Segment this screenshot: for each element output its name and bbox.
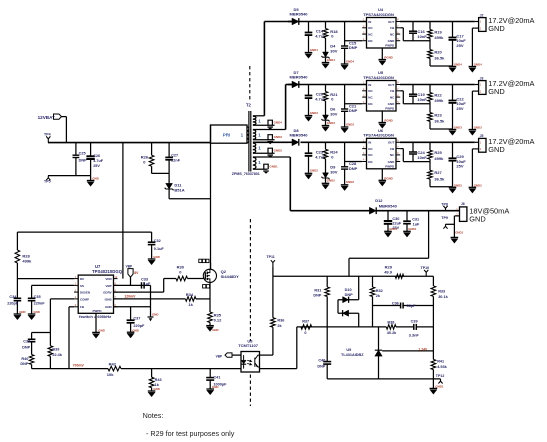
capacitor C41 1000pF bbox=[209, 369, 211, 378]
svg-text:499k: 499k bbox=[434, 156, 444, 161]
ground GND3 bbox=[341, 126, 349, 128]
svg-text:C27: C27 bbox=[171, 154, 178, 158]
svg-text:25V: 25V bbox=[456, 164, 463, 169]
wire ISNS bbox=[114, 298, 186, 300]
wire input bbox=[62, 116, 67, 118]
transistor Q2 Si4448DY bbox=[203, 269, 216, 282]
ground GND bbox=[127, 331, 135, 333]
svg-text:8V: 8V bbox=[134, 271, 139, 275]
svg-text:36.5k: 36.5k bbox=[434, 119, 445, 124]
wire GDRV bbox=[114, 291, 164, 293]
svg-text:GND: GND bbox=[488, 145, 504, 154]
capacitor C23 4.7uF bbox=[308, 142, 310, 153]
svg-text:GND3: GND3 bbox=[310, 111, 318, 115]
svg-text:25V: 25V bbox=[456, 106, 463, 111]
svg-text:PGND: PGND bbox=[384, 119, 392, 123]
svg-text:OUT: OUT bbox=[388, 83, 395, 87]
svg-text:ISNS: ISNS bbox=[105, 297, 112, 301]
ground GND1 bbox=[264, 164, 268, 169]
svg-text:R41: R41 bbox=[437, 360, 444, 364]
svg-text:R42: R42 bbox=[109, 361, 117, 366]
ground GND bbox=[148, 258, 156, 260]
svg-text:TP10: TP10 bbox=[421, 266, 430, 270]
resistor R25 499k bbox=[429, 142, 431, 150]
svg-text:DNP: DNP bbox=[349, 45, 358, 50]
resistor R41 4.93k bbox=[432, 351, 434, 360]
svg-text:MBR0540: MBR0540 bbox=[290, 12, 309, 17]
wire PWPD pad ground bbox=[381, 111, 383, 122]
svg-text:VBP: VBP bbox=[126, 264, 133, 268]
resistor R28 499k bbox=[16, 232, 18, 250]
wire W2 to row2 bbox=[253, 129, 286, 131]
optocoupler U8 TCMT1107 bbox=[241, 352, 260, 373]
svg-text:IN: IN bbox=[368, 141, 371, 145]
Q2 drain pin numbers bbox=[199, 259, 202, 262]
connector J5 bbox=[479, 138, 486, 152]
svg-text:GND: GND bbox=[33, 310, 39, 314]
ground GND4 bbox=[322, 62, 330, 64]
ground GND3 bbox=[305, 115, 313, 117]
capacitor C25 DNP bbox=[75, 143, 77, 156]
svg-text:36.5k: 36.5k bbox=[434, 177, 445, 182]
capacitor C21 DNP bbox=[344, 85, 346, 110]
resistor R30 0 bbox=[176, 276, 188, 281]
svg-text:GND3: GND3 bbox=[454, 126, 462, 130]
ground GND1 bbox=[403, 230, 411, 232]
svg-text:TPS40210DGQ: TPS40210DGQ bbox=[92, 269, 123, 274]
diode D12 MBR0540 bbox=[369, 207, 376, 214]
svg-text:10nF: 10nF bbox=[417, 155, 427, 160]
ground GND4 bbox=[469, 66, 477, 68]
connector J6 bbox=[460, 207, 467, 222]
wire connector ground bbox=[472, 148, 474, 150]
wire opto collector bbox=[260, 354, 273, 356]
ground GND2 bbox=[322, 182, 330, 184]
wire W3 to row3 bbox=[253, 141, 288, 143]
svg-text:J5: J5 bbox=[480, 134, 484, 138]
wire EN tie bbox=[345, 161, 363, 163]
svg-text:GND4: GND4 bbox=[346, 59, 354, 63]
svg-text:30V: 30V bbox=[330, 169, 337, 174]
wire secondary bus row U6 bbox=[301, 141, 367, 143]
svg-text:C34: C34 bbox=[9, 295, 17, 299]
svg-text:GND: GND bbox=[19, 310, 25, 314]
svg-text:TP11: TP11 bbox=[266, 255, 274, 259]
svg-text:DNP: DNP bbox=[22, 346, 30, 350]
svg-text:GND2: GND2 bbox=[327, 179, 335, 183]
capacitor C35 220nF bbox=[28, 297, 36, 299]
svg-text:DNP: DNP bbox=[317, 365, 325, 369]
wire PWPD pad ground bbox=[381, 48, 383, 59]
wire W2 return bbox=[253, 139, 275, 141]
connector J3 bbox=[479, 81, 486, 95]
svg-text:GND: GND bbox=[388, 39, 396, 43]
ground GND bbox=[92, 331, 100, 333]
capacitor C16 10nF bbox=[412, 22, 414, 32]
svg-text:TCMT1107: TCMT1107 bbox=[238, 343, 259, 348]
svg-text:700mV: 700mV bbox=[73, 364, 85, 368]
svg-text:1.24V: 1.24V bbox=[418, 347, 428, 351]
ground GND1 bbox=[384, 230, 392, 232]
svg-text:GND1: GND1 bbox=[435, 385, 443, 389]
svg-text:1: 1 bbox=[258, 160, 261, 165]
capacitor C40 DNP bbox=[326, 327, 328, 362]
svg-text:- R29 for test purposes only: - R29 for test purposes only bbox=[146, 429, 235, 438]
resistor R37 0 bbox=[301, 325, 312, 330]
svg-text:R38: R38 bbox=[387, 321, 394, 325]
svg-text:R43: R43 bbox=[155, 378, 162, 382]
wire FB network bbox=[400, 148, 403, 150]
zener diode D4 30V bbox=[323, 52, 329, 57]
capacitor C38 DNP bbox=[31, 333, 33, 340]
svg-text:R27: R27 bbox=[434, 170, 442, 175]
svg-text:R19: R19 bbox=[434, 29, 442, 34]
svg-text:J6: J6 bbox=[461, 202, 465, 206]
svg-text:VBP: VBP bbox=[106, 284, 112, 288]
svg-text:R33: R33 bbox=[438, 289, 445, 293]
wire bbox=[90, 176, 92, 181]
capacitor C19 10nF bbox=[412, 85, 414, 95]
svg-text:1: 1 bbox=[258, 132, 261, 137]
svg-text:D12: D12 bbox=[375, 198, 383, 203]
capacitor C28 DNP bbox=[344, 142, 346, 167]
wire source bbox=[209, 282, 211, 312]
ground GND2 bbox=[469, 186, 477, 188]
svg-text:GND1: GND1 bbox=[269, 165, 278, 169]
resistor R20 36.5k bbox=[428, 50, 433, 59]
svg-text:C30: C30 bbox=[392, 217, 399, 221]
svg-text:3.3nF: 3.3nF bbox=[409, 333, 420, 337]
svg-text:DNP: DNP bbox=[349, 166, 358, 171]
svg-text:DNP: DNP bbox=[20, 362, 28, 366]
transformer secondary winding 3 bbox=[253, 143, 256, 146]
wire C33 to gnd bbox=[150, 285, 152, 317]
zener diode D11 51V clamp bbox=[151, 143, 153, 156]
svg-text:MBR0540: MBR0540 bbox=[290, 133, 309, 138]
capacitor C33 1uF bbox=[141, 282, 143, 288]
resistor R19 499k bbox=[429, 22, 431, 30]
wire FB network bbox=[400, 27, 403, 29]
svg-text:COMP: COMP bbox=[80, 297, 89, 301]
diode D8 MBR0540 bbox=[288, 141, 292, 143]
svg-text:R25: R25 bbox=[434, 150, 442, 155]
connector J2 bbox=[479, 18, 486, 32]
isolation barrier dashed bbox=[249, 219, 251, 406]
svg-text:PWPD: PWPD bbox=[385, 44, 395, 48]
shunt regulator U9 TL431AIDBZ bbox=[378, 327, 380, 350]
svg-text:D10: D10 bbox=[345, 288, 352, 292]
svg-text:30V: 30V bbox=[330, 49, 337, 54]
wire primary to drain bbox=[210, 125, 212, 269]
ground GND2 bbox=[305, 172, 313, 174]
svg-text:MBR0540: MBR0540 bbox=[379, 203, 398, 208]
capacitor C30 22uF 25V bbox=[387, 211, 389, 221]
svg-text:PWPD: PWPD bbox=[93, 309, 103, 313]
svg-text:10nF: 10nF bbox=[417, 97, 427, 102]
zener diode D11 bbox=[166, 183, 173, 189]
capacitor C39 3.3nF bbox=[413, 324, 415, 330]
capacitor C24 10nF bbox=[412, 142, 414, 152]
svg-text:4.93k: 4.93k bbox=[437, 365, 447, 369]
svg-text:10k: 10k bbox=[107, 372, 114, 377]
wire output gnd rail bbox=[430, 65, 453, 67]
svg-text:B51A: B51A bbox=[174, 187, 184, 192]
ground GND4 bbox=[341, 63, 349, 65]
svg-text:J3: J3 bbox=[480, 76, 484, 80]
svg-text:DNP: DNP bbox=[79, 158, 87, 162]
wire PWPD pad ground bbox=[381, 169, 383, 180]
ground GND4 bbox=[449, 66, 457, 68]
resistor R33 30.1k bbox=[432, 276, 434, 286]
wire U7 GND pin bbox=[114, 306, 151, 308]
resistor R35 0.12 bbox=[208, 312, 213, 323]
svg-text:R31: R31 bbox=[314, 289, 321, 293]
zener diode D9 30V bbox=[323, 173, 329, 178]
wire W1 return bbox=[253, 124, 275, 126]
svg-text:PWPD: PWPD bbox=[385, 107, 395, 111]
wire output gnd rail bbox=[430, 186, 453, 188]
resistor R24 0 bbox=[325, 142, 327, 149]
svg-text:TP4: TP4 bbox=[44, 132, 51, 136]
svg-text:R32: R32 bbox=[376, 289, 383, 293]
svg-text:1uF: 1uF bbox=[144, 282, 151, 286]
svg-text:10nF: 10nF bbox=[417, 34, 427, 39]
svg-text:SS: SS bbox=[80, 284, 84, 288]
ground GND3 bbox=[322, 125, 330, 127]
svg-text:220pF: 220pF bbox=[7, 302, 19, 306]
wire opto output bbox=[260, 368, 297, 370]
resistor R23 36.5k bbox=[428, 113, 433, 122]
capacitor C34 220pF bbox=[14, 297, 22, 299]
regulator U4 TPS7A4201DGN bbox=[367, 18, 397, 49]
svg-text:C39: C39 bbox=[411, 319, 418, 323]
svg-text:1uF: 1uF bbox=[413, 223, 420, 227]
ground GND bbox=[148, 390, 156, 392]
svg-text:fswitch = 600kHz: fswitch = 600kHz bbox=[79, 314, 111, 319]
svg-text:TPS7A4201DGN: TPS7A4201DGN bbox=[363, 133, 394, 138]
svg-text:C38: C38 bbox=[23, 340, 30, 344]
regulator U5 TPS7A4201DGN bbox=[367, 81, 397, 112]
resistor R43 1k bbox=[151, 369, 153, 378]
svg-text:GND4: GND4 bbox=[327, 58, 335, 62]
wire VBP bbox=[130, 277, 132, 285]
resistor R42 10k bbox=[108, 366, 121, 371]
wire EN tie bbox=[345, 40, 363, 42]
wire J6 ground bbox=[453, 216, 455, 237]
svg-text:PWPD: PWPD bbox=[385, 165, 395, 169]
svg-text:22uF: 22uF bbox=[392, 222, 402, 226]
svg-text:GND: GND bbox=[153, 255, 159, 259]
ground GND3 bbox=[449, 129, 457, 131]
wire comp network bbox=[32, 332, 51, 334]
svg-text:499k: 499k bbox=[434, 35, 444, 40]
capacitor C22 10uF 25V bbox=[452, 85, 454, 101]
capacitor C37 220pF bbox=[130, 307, 132, 320]
capacitor C36 56pF bbox=[373, 305, 401, 307]
svg-text:30V: 30V bbox=[330, 112, 337, 117]
capacitor C26 4.7uF 25V bbox=[90, 143, 92, 157]
svg-text:GND: GND bbox=[105, 305, 113, 309]
wire TP11 bbox=[272, 266, 274, 276]
wire opto anode bbox=[232, 354, 241, 356]
svg-text:GND2: GND2 bbox=[310, 169, 318, 173]
transformer secondary winding 4 bbox=[253, 157, 256, 161]
svg-text:IN: IN bbox=[368, 20, 371, 24]
svg-text:12VBAT: 12VBAT bbox=[38, 115, 55, 120]
wire U7 pad ground bbox=[95, 313, 97, 332]
svg-text:GND4: GND4 bbox=[474, 63, 482, 67]
svg-text:22.4k: 22.4k bbox=[52, 353, 62, 357]
ground GND2 bbox=[268, 148, 272, 153]
svg-text:499k: 499k bbox=[434, 98, 444, 103]
diode pair D10 DNP bbox=[358, 276, 360, 299]
svg-text:T2: T2 bbox=[246, 103, 252, 108]
svg-text:56pF: 56pF bbox=[407, 304, 417, 308]
wire snubber bbox=[152, 172, 170, 174]
svg-text:GND3: GND3 bbox=[474, 126, 482, 130]
wire drain bbox=[210, 263, 212, 270]
wire 18V tap bbox=[428, 211, 430, 259]
svg-text:30.1k: 30.1k bbox=[438, 295, 448, 299]
resistor R21 0 bbox=[325, 85, 327, 92]
svg-text:4.7uF: 4.7uF bbox=[93, 159, 104, 163]
svg-text:GND: GND bbox=[388, 160, 396, 164]
svg-text:GND: GND bbox=[92, 177, 98, 181]
wire cap return bbox=[48, 175, 91, 177]
svg-text:TL431AIDBZ: TL431AIDBZ bbox=[341, 353, 364, 357]
resistor R32 2k bbox=[372, 276, 374, 287]
capacitor C29 10uF 25V bbox=[452, 142, 454, 158]
svg-text:DIS/EN: DIS/EN bbox=[80, 291, 90, 295]
svg-text:GND2: GND2 bbox=[274, 149, 283, 153]
svg-text:GND: GND bbox=[388, 102, 396, 106]
svg-text:GND3: GND3 bbox=[346, 122, 354, 126]
svg-text:R36: R36 bbox=[277, 319, 284, 323]
ground GND4 bbox=[305, 52, 313, 54]
transformer primary winding PRI bbox=[211, 125, 248, 143]
ground GND bbox=[14, 313, 22, 315]
svg-text:GND: GND bbox=[469, 215, 485, 224]
resistor R39 22.4k bbox=[49, 333, 51, 346]
Q2 source pin numbers bbox=[203, 285, 206, 288]
ground GND3 bbox=[469, 129, 477, 131]
capacitor C27 22nF bbox=[168, 143, 170, 158]
svg-text:DNP: DNP bbox=[313, 293, 321, 297]
svg-text:GND: GND bbox=[153, 387, 159, 391]
svg-text:0.12: 0.12 bbox=[214, 318, 223, 323]
zener diode D6 30V bbox=[323, 115, 329, 120]
wire TL431 ref bbox=[382, 350, 433, 352]
svg-text:OUT: OUT bbox=[388, 20, 395, 24]
wire connector ground bbox=[472, 90, 474, 92]
svg-text:GND: GND bbox=[212, 328, 218, 332]
diode D7 MBR0540 bbox=[288, 84, 292, 86]
svg-text:1: 1 bbox=[258, 146, 261, 151]
ground GND2 bbox=[341, 184, 349, 186]
resistor R27 36.5k bbox=[428, 170, 433, 179]
svg-text:GND: GND bbox=[152, 312, 158, 316]
svg-text:GND1: GND1 bbox=[408, 227, 416, 231]
U8 internals bbox=[243, 355, 245, 369]
svg-text:R40: R40 bbox=[21, 357, 28, 361]
wire W1 to row1 bbox=[253, 115, 265, 117]
svg-text:C41: C41 bbox=[213, 375, 220, 379]
svg-text:TP5: TP5 bbox=[44, 180, 51, 184]
resistor R31 DNP bbox=[326, 276, 328, 287]
wire FB network bbox=[400, 90, 403, 92]
svg-text:GND: GND bbox=[212, 385, 218, 389]
svg-text:ZPMS_76037801: ZPMS_76037801 bbox=[232, 172, 260, 176]
svg-text:120mV: 120mV bbox=[124, 294, 136, 298]
ground GND bbox=[87, 180, 95, 182]
wire EN tie bbox=[345, 103, 363, 105]
svg-text:22nF: 22nF bbox=[171, 159, 181, 163]
wire TL431 anode rail bbox=[327, 378, 440, 380]
wire W4 to 18V output bbox=[253, 156, 290, 158]
controller U7 TPS40210DGQ bbox=[78, 275, 113, 313]
resistor R22 499k bbox=[429, 85, 431, 93]
resistor R35b 40.2k bbox=[386, 325, 396, 330]
svg-text:0: 0 bbox=[304, 331, 306, 335]
svg-text:U9: U9 bbox=[346, 348, 351, 352]
svg-text:GND: GND bbox=[132, 328, 138, 332]
svg-text:TP8: TP8 bbox=[441, 202, 448, 206]
svg-text:R20: R20 bbox=[434, 49, 442, 54]
svg-text:220nF: 220nF bbox=[34, 302, 46, 306]
ground GND2 bbox=[449, 186, 457, 188]
wire VDD feed bbox=[122, 143, 124, 279]
svg-text:25V: 25V bbox=[93, 164, 100, 168]
diode D5 MBR0540 bbox=[288, 21, 292, 23]
svg-text:EN: EN bbox=[368, 102, 372, 106]
svg-text:R23: R23 bbox=[434, 112, 442, 117]
svg-text:1: 1 bbox=[258, 119, 261, 124]
svg-text:GDRV: GDRV bbox=[103, 291, 112, 295]
svg-text:TP9: TP9 bbox=[441, 216, 448, 220]
ground GND1 bbox=[451, 236, 459, 238]
svg-text:C25: C25 bbox=[79, 151, 86, 155]
wire TL431 cathode node bbox=[297, 326, 387, 328]
svg-text:R34: R34 bbox=[186, 292, 194, 297]
ground GND bbox=[206, 388, 214, 390]
svg-text:VBP: VBP bbox=[216, 355, 223, 359]
wire secondary bus row U5 bbox=[301, 84, 367, 86]
resistor R36 2k bbox=[272, 276, 274, 317]
svg-text:GND: GND bbox=[488, 87, 504, 96]
svg-text:GND1: GND1 bbox=[455, 231, 463, 235]
wire output gnd rail bbox=[430, 128, 453, 130]
svg-text:PRI: PRI bbox=[223, 132, 231, 137]
svg-text:DNP: DNP bbox=[349, 108, 358, 113]
svg-text:EN: EN bbox=[368, 160, 372, 164]
svg-text:C36: C36 bbox=[392, 302, 399, 306]
capacitor C20 4.7uF bbox=[308, 85, 310, 96]
svg-text:GND2: GND2 bbox=[454, 184, 462, 188]
svg-text:C32: C32 bbox=[154, 239, 161, 243]
svg-text:C40: C40 bbox=[318, 359, 325, 363]
ground GND4 bbox=[268, 120, 272, 125]
svg-text:GND2: GND2 bbox=[346, 180, 354, 184]
svg-text:GND4: GND4 bbox=[454, 63, 462, 67]
svg-text:0.1uF: 0.1uF bbox=[154, 247, 165, 251]
svg-text:DNP: DNP bbox=[345, 293, 353, 297]
svg-text:36.5k: 36.5k bbox=[434, 56, 445, 61]
svg-text:C35: C35 bbox=[34, 295, 41, 299]
ground GND bbox=[206, 325, 214, 327]
svg-text:49.9: 49.9 bbox=[384, 269, 393, 274]
svg-text:R39: R39 bbox=[52, 348, 59, 352]
svg-text:TPS7A4201DGN: TPS7A4201DGN bbox=[363, 75, 394, 80]
